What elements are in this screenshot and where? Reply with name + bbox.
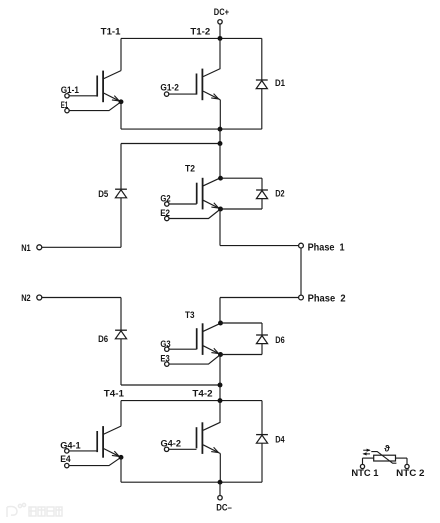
wire phase link bbox=[300, 248, 302, 295]
wire N1 lead bbox=[42, 246, 121, 248]
svg-text:D2: D2 bbox=[275, 188, 284, 198]
junction T3 emitter bbox=[218, 352, 223, 357]
wire D6 link rail bbox=[121, 384, 220, 386]
wire D1 bottom bbox=[261, 89, 263, 130]
wire G1-1 lead bbox=[69, 95, 97, 97]
terminal DC+ bbox=[218, 20, 222, 24]
wire bus from Phase2 bbox=[219, 298, 221, 324]
wire D4 bottom bbox=[261, 443, 263, 482]
wire D1 top bbox=[261, 38, 263, 80]
wire G1-2 lead bbox=[169, 93, 197, 95]
transistor T3 (IGBT) bbox=[197, 323, 221, 355]
wire D4 top bbox=[261, 401, 263, 435]
wire D6r top link bbox=[221, 322, 263, 324]
junction bus y385 bbox=[218, 383, 223, 388]
terminal DC- bbox=[218, 496, 222, 500]
wire T1-1 emitter down bbox=[120, 102, 122, 129]
transistor T1-1 (IGBT) bbox=[97, 71, 121, 103]
terminal NTC 2 pin bbox=[405, 464, 409, 468]
wire T4-2 emitter down bbox=[219, 454, 221, 483]
junction bus y143 bbox=[218, 141, 223, 146]
terminal N2 bbox=[37, 295, 42, 300]
diode D4 bbox=[256, 435, 268, 444]
wire bus segment bbox=[219, 129, 221, 143]
junction DC- rail bbox=[218, 480, 223, 485]
svg-text:G4-1: G4-1 bbox=[60, 440, 80, 450]
svg-text:E1: E1 bbox=[61, 100, 68, 110]
svg-text:Phase 1: Phase 1 bbox=[308, 242, 345, 253]
diode D6 (right) bbox=[256, 335, 268, 344]
wire T4-1 collector bbox=[120, 401, 122, 426]
svg-text:NTC 1: NTC 1 bbox=[351, 468, 379, 479]
wire NTC right lead bbox=[396, 457, 408, 459]
transistor T4-1 (IGBT) bbox=[97, 426, 121, 458]
svg-text:G1-1: G1-1 bbox=[61, 85, 79, 95]
junction T4 rail bbox=[218, 398, 223, 403]
transistor T1-2 (IGBT) bbox=[197, 69, 221, 101]
svg-text:T1-2: T1-2 bbox=[190, 26, 210, 36]
wire D6 top bbox=[120, 298, 122, 331]
diode D2 bbox=[256, 190, 268, 199]
wire T4-1 emitter down bbox=[120, 457, 122, 482]
wire E2 lead bbox=[169, 209, 221, 219]
wire upper emitter rail bbox=[121, 128, 262, 130]
svg-text:N1: N1 bbox=[21, 242, 31, 253]
terminal G3 bbox=[165, 347, 169, 351]
transistor T2 (IGBT) bbox=[197, 178, 221, 210]
diode D6 bbox=[115, 330, 127, 339]
junction T2 emitter bbox=[218, 207, 223, 212]
wire DC+ stub bbox=[219, 24, 221, 38]
svg-text:T4-1: T4-1 bbox=[104, 389, 124, 399]
svg-text:T3: T3 bbox=[185, 310, 195, 320]
wire T4-2 collector bbox=[219, 401, 221, 423]
wire DC- stub bbox=[219, 482, 221, 495]
wire D6 bottom bbox=[120, 339, 122, 385]
svg-text:G1-2: G1-2 bbox=[160, 82, 179, 92]
wire D5 link rail bbox=[121, 143, 220, 145]
transistor T4-2 (IGBT) bbox=[197, 422, 221, 454]
svg-text:G2: G2 bbox=[160, 194, 170, 204]
wire D2 top link bbox=[221, 177, 263, 179]
terminal G4-1 bbox=[65, 449, 69, 453]
wire Phase2 lead bbox=[220, 297, 299, 299]
wire D2 top bbox=[261, 178, 263, 190]
wire T4 top rail bbox=[121, 400, 262, 402]
wire E4 lead bbox=[69, 457, 121, 465]
junction T1-1 emitter bbox=[119, 99, 124, 104]
wire E1 lead bbox=[69, 102, 121, 111]
wire D2 bottom bbox=[261, 199, 263, 210]
svg-text:DC+: DC+ bbox=[214, 7, 229, 17]
wire bus to T2 bbox=[219, 144, 221, 179]
wire N2 lead bbox=[42, 297, 121, 299]
svg-text:E3: E3 bbox=[160, 353, 169, 363]
junction bus y129 bbox=[218, 127, 223, 132]
terminal G4-2 bbox=[164, 447, 168, 451]
terminal E3 bbox=[165, 362, 169, 366]
svg-text:T4-2: T4-2 bbox=[192, 389, 212, 399]
wire D6r bottom bbox=[261, 344, 263, 355]
svg-text:DC–: DC– bbox=[216, 502, 232, 512]
wire top rail bbox=[121, 37, 262, 39]
terminal NTC 1 pin bbox=[360, 464, 364, 468]
wire G2 lead bbox=[169, 203, 197, 205]
wire D2 bottom link bbox=[221, 208, 263, 210]
junction T2 collector bbox=[218, 176, 223, 181]
wire NTC left down bbox=[362, 458, 364, 464]
wire D5 top bbox=[120, 144, 122, 190]
terminal Phase 2 bbox=[299, 295, 304, 300]
wire E3 lead bbox=[169, 355, 221, 365]
wire bus to Phase1 bbox=[219, 209, 221, 246]
svg-text:ϑ: ϑ bbox=[384, 444, 390, 455]
thermistor NTC R1 body bbox=[374, 455, 396, 461]
wire bus to T4 rail bbox=[219, 355, 221, 401]
wire D6r top bbox=[261, 323, 263, 335]
thermistor NTC diagonal bbox=[371, 452, 396, 464]
wire T1-2 collector bbox=[219, 38, 221, 68]
svg-text:T2: T2 bbox=[185, 164, 195, 174]
wire D6r bottom link bbox=[221, 354, 263, 356]
diode D5 bbox=[115, 189, 127, 198]
terminal E4 bbox=[65, 463, 69, 467]
terminal G2 bbox=[165, 202, 169, 206]
svg-text:G4-2: G4-2 bbox=[161, 438, 182, 448]
junction T4-1 emitter bbox=[119, 455, 124, 460]
terminal G1-2 bbox=[164, 92, 168, 96]
svg-text:D6: D6 bbox=[98, 334, 108, 344]
svg-text:D1: D1 bbox=[275, 78, 285, 88]
terminal Phase 1 bbox=[299, 243, 304, 248]
wire NTC left lead bbox=[363, 457, 374, 459]
svg-text:E4: E4 bbox=[60, 454, 71, 464]
svg-text:NTC 2: NTC 2 bbox=[396, 468, 424, 479]
terminal E1 bbox=[65, 108, 69, 112]
svg-text:T1-1: T1-1 bbox=[101, 26, 121, 36]
wire Phase1 lead bbox=[220, 245, 299, 247]
wire T1-1 collector bbox=[120, 38, 122, 70]
svg-text:G3: G3 bbox=[160, 339, 170, 349]
wire T1-2 emitter down bbox=[219, 100, 221, 129]
wire NTC right down bbox=[406, 458, 408, 464]
svg-text:D5: D5 bbox=[98, 189, 108, 199]
wire D5 bottom bbox=[120, 198, 122, 248]
junction at DC+ rail bbox=[218, 36, 223, 41]
terminal N1 bbox=[37, 245, 42, 250]
diode D1 bbox=[256, 80, 268, 89]
svg-text:Phase 2: Phase 2 bbox=[308, 293, 346, 304]
junction T3 collector bbox=[218, 321, 223, 326]
wire G4-1 lead bbox=[69, 450, 97, 452]
wire bottom rail bbox=[121, 481, 262, 483]
svg-text:D6: D6 bbox=[275, 335, 284, 345]
terminal G1-1 bbox=[65, 94, 69, 98]
wire G4-2 lead bbox=[169, 448, 197, 450]
svg-text:E2: E2 bbox=[160, 208, 170, 218]
svg-text:N2: N2 bbox=[21, 292, 31, 303]
svg-text:D4: D4 bbox=[275, 434, 284, 444]
thermistor NTC arrows bbox=[363, 449, 370, 451]
terminal E2 bbox=[165, 216, 169, 220]
wire G3 lead bbox=[169, 348, 197, 350]
